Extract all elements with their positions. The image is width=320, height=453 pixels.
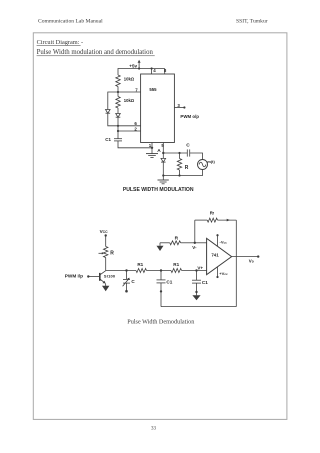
svg-text:SSIT, Tumkur: SSIT, Tumkur [236, 19, 268, 25]
junction dot R2 top [178, 152, 180, 154]
wire R1b to V+ [182, 270, 207, 272]
svg-text:R: R [110, 251, 114, 257]
diode D3 below node A [162, 153, 164, 158]
junction dot diode D3 bottom [162, 174, 164, 176]
svg-text:VCC: VCC [100, 229, 109, 234]
wire C3 bottom [126, 283, 128, 290]
wire node7 to RB [117, 92, 119, 97]
svg-text:+5v: +5v [129, 64, 137, 69]
wire base [88, 276, 100, 278]
node V+ junction dot [195, 269, 197, 271]
chassis ground bottom rail [162, 176, 164, 181]
ground arrow C1b [192, 295, 200, 300]
node pin7 junction dot [117, 91, 119, 93]
resistor R1a [136, 269, 147, 273]
page border frame [33, 33, 287, 420]
wire pin 6 [118, 125, 141, 127]
resistor RA 10k (upper) [116, 75, 120, 87]
diode D1 (left branch) [106, 110, 111, 114]
svg-text:8: 8 [164, 68, 167, 73]
ground arrow emitter [105, 283, 107, 286]
svg-text:C: C [186, 142, 190, 148]
output terminal dot [257, 255, 259, 257]
resistor RB 10k (lower) [116, 97, 120, 109]
junction dot V- node [194, 242, 196, 244]
resistor R2 [179, 153, 181, 159]
junction dot C1a leg [160, 290, 162, 292]
V- input wire [195, 242, 207, 244]
svg-text:Sl100: Sl100 [104, 274, 116, 279]
input terminal dot [87, 275, 89, 277]
wire C1a to feedback rail [160, 283, 162, 307]
node 6 junction dot [117, 125, 119, 127]
wire R3 to collector [105, 258, 107, 271]
variable capacitor C3 [123, 278, 130, 280]
power stub -Vcc [217, 236, 219, 247]
node 2 junction dot [117, 130, 119, 132]
555 timer U1 body [141, 74, 175, 143]
Vcc terminal dot [105, 234, 107, 236]
capacitor C1 [114, 138, 122, 140]
wire C3 top [126, 271, 128, 280]
svg-text:33: 33 [151, 426, 157, 431]
svg-text:R1: R1 [137, 262, 143, 267]
wire pin 2 [118, 130, 141, 132]
wire RA to node 7 [117, 87, 119, 93]
chassis ground pin 1 [146, 153, 158, 155]
svg-text:C: C [131, 279, 135, 284]
capacitor C2 (series) [186, 149, 188, 156]
svg-text:Circuit Diagram: -: Circuit Diagram: - [37, 39, 84, 46]
junction dot +5v rail [138, 67, 140, 69]
wire R1a to R1b [147, 270, 172, 272]
svg-text:PULSE WIDTH MODULATION: PULSE WIDTH MODULATION [123, 187, 194, 193]
svg-text:555: 555 [149, 87, 157, 92]
capacitor C1b [192, 279, 201, 281]
wire source bottom rail [163, 170, 202, 176]
ground arrow R4 [159, 243, 161, 246]
wire node7 to diode branch [108, 92, 118, 110]
svg-text:C1: C1 [105, 137, 111, 142]
svg-text:R: R [185, 165, 189, 171]
+5v supply arrow [138, 62, 140, 68]
junction dot C3 tap [125, 269, 127, 271]
svg-text:741: 741 [211, 252, 219, 257]
svg-text:V-: V- [192, 245, 197, 250]
svg-text:C1: C1 [202, 280, 208, 285]
svg-text:-Vcc: -Vcc [220, 239, 228, 244]
resistor R4 (V- to ground) [160, 242, 170, 244]
svg-text:Pulse Width Demodulation: Pulse Width Demodulation [127, 318, 194, 325]
C3 terminal dot [125, 290, 128, 293]
wire C2 to source [190, 153, 203, 160]
wire node 2 to capacitor C1 [117, 131, 119, 139]
node A junction dot [162, 152, 164, 154]
junction dot C1a tap [160, 269, 162, 271]
pin 3 terminal dot [183, 106, 185, 108]
svg-text:V+: V+ [197, 266, 203, 271]
svg-text:C1: C1 [166, 280, 172, 285]
feedback resistor Rf [195, 219, 207, 221]
svg-text:10kΩ: 10kΩ [124, 76, 135, 81]
wire Vcc to R3 [105, 236, 107, 247]
svg-text:3: 3 [177, 103, 180, 108]
op-amp U2 741 [207, 238, 232, 274]
wire node A to capacitor C2 [163, 152, 187, 154]
wire RB to diode D2 [117, 108, 119, 114]
AC source m(t) [198, 160, 208, 170]
junction dot R2 bottom [178, 174, 180, 176]
svg-text:A: A [157, 148, 161, 154]
svg-text:PWM o/p: PWM o/p [180, 114, 199, 119]
power stub +Vcc [217, 267, 219, 277]
wire D2 to node 6 [117, 117, 119, 126]
pin 4 stub [151, 69, 153, 75]
junction dot pin 4 [151, 67, 153, 69]
svg-text:5: 5 [161, 143, 164, 148]
R3 wiper tick arrow [99, 252, 103, 254]
wire Rf left leg to V- [194, 220, 196, 243]
wire node 6 to node 2 [117, 126, 119, 131]
pin 3 wire [174, 107, 184, 109]
svg-text:+Vcc: +Vcc [219, 271, 228, 276]
feedback wire arrowhead [227, 219, 230, 222]
svg-text:Vo: Vo [249, 258, 254, 263]
bottom feedback rail wire [161, 306, 236, 308]
wire +5v top supply rail [118, 69, 165, 76]
svg-text:R: R [175, 235, 179, 241]
pin 1 stub [151, 143, 153, 154]
junction dot C1b leg [195, 291, 197, 293]
svg-text:PWM i/p: PWM i/p [65, 273, 83, 278]
wire C1a top [160, 271, 162, 280]
wire C1b top [196, 271, 198, 281]
pin 5 stub [162, 143, 164, 154]
diode D2 (middle branch) [116, 114, 121, 118]
svg-text:R1: R1 [173, 262, 179, 267]
capacitor C1a [157, 279, 166, 281]
svg-text:10kΩ: 10kΩ [124, 98, 135, 103]
resistor R3 (collector load) [104, 247, 108, 258]
svg-text:Pulse Width modulation and dem: Pulse Width modulation and demodulation [37, 49, 154, 56]
wire collector node chain [106, 270, 136, 272]
wire pin 7 [118, 91, 141, 93]
svg-text:Rf: Rf [210, 210, 215, 215]
output wire [232, 256, 258, 258]
pin 8 stub [164, 69, 166, 75]
junction dot pin1 / C1 rail [151, 147, 153, 149]
svg-text:Communication Lab Manual: Communication Lab Manual [38, 19, 103, 25]
feedback right leg wire [235, 220, 237, 307]
wire C1 to pin 1 [118, 141, 152, 148]
svg-text:m(t): m(t) [207, 159, 215, 164]
resistor R1b [171, 269, 182, 273]
wire C1b down [196, 283, 198, 295]
wire D1 to node 6 [108, 113, 118, 126]
transistor Q1 SL100 [99, 273, 101, 281]
